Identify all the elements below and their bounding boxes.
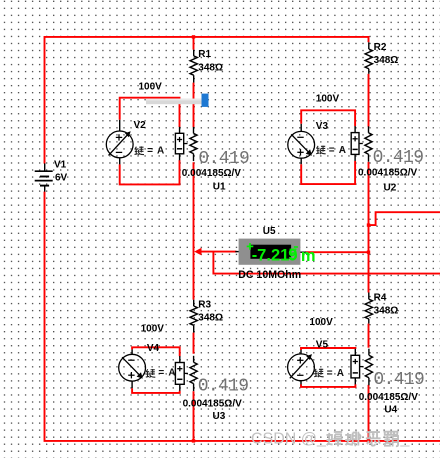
svg-text:100V: 100V — [139, 82, 163, 93]
svg-text:= A: = A — [327, 368, 345, 379]
svg-text:348Ω: 348Ω — [198, 313, 223, 324]
wire right branch U4 to bottom bus — [368, 385, 370, 441]
svg-text:V4: V4 — [147, 343, 160, 354]
label key equals A of V3 — [316, 146, 326, 155]
model resistor of V4 — [190, 356, 197, 391]
polarity indicator box of V3 — [351, 126, 363, 161]
svg-text:0.419: 0.419 — [198, 149, 249, 169]
svg-text:R1: R1 — [198, 49, 211, 60]
svg-text:m: m — [301, 247, 316, 265]
node junction bottom right — [367, 439, 371, 443]
wire bridge output step to right edge — [369, 212, 440, 225]
svg-text:0.004185Ω/V: 0.004185Ω/V — [358, 167, 418, 178]
svg-text:V3: V3 — [316, 121, 329, 132]
svg-text:-7.21: -7.21 — [252, 246, 290, 264]
svg-text:0.419: 0.419 — [373, 370, 424, 390]
svg-text:348Ω: 348Ω — [374, 305, 399, 316]
svg-text:V1: V1 — [54, 160, 67, 171]
wire loop of V2 — [120, 98, 180, 185]
wire right branch R4 to U4 — [368, 324, 370, 348]
svg-text:U5: U5 — [263, 226, 276, 237]
svg-text:U4: U4 — [384, 405, 397, 416]
galvanometer source V5 — [288, 350, 315, 385]
watermark CSDN — [251, 431, 411, 448]
wire top bus to R1 — [193, 37, 195, 50]
wire top bus — [45, 37, 369, 164]
svg-text:R4: R4 — [374, 292, 387, 303]
svg-text:= A: = A — [329, 145, 347, 156]
node junction right branch U5 terminal — [367, 251, 370, 254]
svg-text:U2: U2 — [384, 182, 397, 193]
wire left battery to bottom bus — [45, 192, 440, 441]
svg-text:U1: U1 — [213, 181, 226, 192]
galvanometer source V4 — [119, 349, 146, 388]
svg-text:= A: = A — [147, 146, 165, 157]
label key equals A of V5 — [314, 369, 324, 378]
polarity indicator box of V4 — [175, 356, 188, 391]
svg-text:V5: V5 — [316, 340, 329, 351]
wire loop of V4 — [132, 347, 180, 393]
svg-text:348Ω: 348Ω — [198, 63, 223, 74]
galvanometer source V2 — [106, 120, 133, 165]
wire U5 right terminal — [306, 251, 369, 253]
resistor R4 — [365, 293, 372, 324]
node junction right branch bridge output — [367, 223, 370, 226]
resistor R2 — [365, 42, 372, 74]
galvanometer source V3 — [288, 124, 315, 164]
wire arrow into center branch — [194, 248, 201, 256]
svg-text:U3: U3 — [213, 411, 226, 422]
svg-text:100V: 100V — [309, 317, 333, 328]
svg-text:348Ω: 348Ω — [374, 55, 399, 66]
wire right branch R2 to U2 — [368, 74, 370, 127]
slider bar control — [146, 94, 209, 107]
resistor R1 — [190, 50, 197, 83]
polarity indicator box of V2 — [175, 127, 187, 161]
svg-text:0.004185Ω/V: 0.004185Ω/V — [182, 168, 242, 179]
label key equals A of V4 — [146, 369, 156, 378]
resistor R3 — [190, 300, 197, 333]
svg-text:0.419: 0.419 — [198, 377, 249, 397]
battery V1 — [35, 163, 53, 191]
multimeter U5 — [235, 239, 306, 265]
wire loop of V5 — [301, 348, 355, 387]
svg-text:100V: 100V — [141, 324, 165, 335]
wire R1 to U1 — [193, 83, 195, 128]
svg-text:V2: V2 — [134, 120, 147, 131]
wire center branch U1 to R3 — [193, 162, 195, 299]
svg-text:100V: 100V — [316, 93, 340, 104]
node junction top R1 branch — [192, 35, 195, 38]
svg-text:_: _ — [400, 431, 411, 448]
svg-text:0.004185Ω/V: 0.004185Ω/V — [183, 399, 243, 410]
svg-text:DC 10MOhm: DC 10MOhm — [238, 269, 301, 281]
wire loop of V3 — [301, 110, 355, 184]
node junction bottom center branch — [192, 439, 195, 442]
svg-text:6V: 6V — [55, 172, 68, 183]
model resistor of V3 — [365, 126, 372, 161]
svg-text:0.419: 0.419 — [373, 148, 424, 168]
polarity indicator box of V5 — [351, 349, 363, 385]
svg-text:= A: = A — [158, 368, 176, 379]
wire U5 left terminal — [197, 251, 237, 253]
svg-text:R2: R2 — [374, 42, 387, 53]
model resistor of V2 — [190, 127, 197, 161]
svg-text:5: 5 — [288, 246, 297, 264]
wire U5 left branch down — [213, 252, 440, 274]
label key equals A of V2 — [135, 146, 145, 155]
wire right branch U2 to R4 — [368, 162, 370, 293]
svg-text:CSDN @_: CSDN @_ — [251, 431, 327, 448]
svg-text:R3: R3 — [198, 299, 211, 310]
model resistor of V5 — [365, 349, 372, 386]
wire center branch U3 to bottom bus — [193, 391, 195, 441]
multimeter U5 green reading — [247, 243, 316, 265]
svg-text:0.004185Ω/V: 0.004185Ω/V — [359, 392, 419, 403]
wire center branch R3 to U3 — [193, 333, 195, 354]
